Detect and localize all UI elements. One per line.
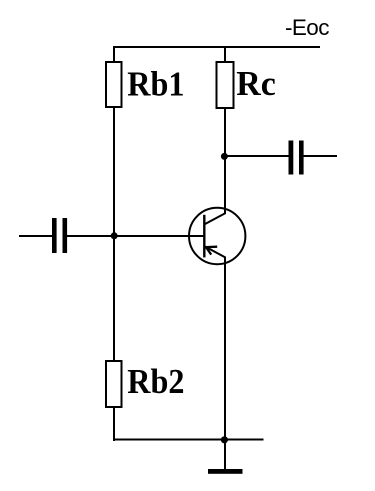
capacitor C2 (output coupling) — [289, 141, 304, 175]
node: base junction dot — [111, 232, 118, 239]
wire: Rb2 bottom to bottom rail — [113, 407, 115, 441]
wire: top rail to Rb1 top — [113, 46, 115, 62]
wire: collector node to output capacitor — [224, 155, 289, 157]
ground symbol — [208, 469, 243, 474]
wire: Rc bottom to collector (through output node) — [224, 108, 226, 214]
wire: top rail to Rc top — [224, 46, 226, 62]
resistor Rc — [217, 62, 276, 108]
wire: ground stem — [224, 440, 226, 470]
wire: Rb1 bottom to Rb2 top (through base node) — [113, 107, 115, 361]
resistor Rb2 — [106, 361, 184, 407]
svg-text:Rb2: Rb2 — [127, 363, 184, 402]
wire: top supply rail — [113, 46, 320, 48]
collector diagonal — [205, 213, 226, 224]
capacitor C1 (input coupling) — [52, 218, 67, 253]
emitter diagonal — [205, 246, 225, 257]
svg-text:Rb1: Rb1 — [127, 65, 184, 104]
wire: emitter down to bottom rail — [224, 257, 226, 442]
svg-text:-Eoc: -Eoc — [285, 15, 329, 40]
svg-text:Rc: Rc — [236, 65, 276, 104]
base bar — [203, 215, 205, 258]
wire: C1 to base node to transistor base — [67, 235, 204, 237]
transistor body circle — [189, 208, 245, 264]
node: emitter/ground junction dot — [221, 436, 228, 443]
wire: bottom rail — [113, 439, 264, 441]
resistor Rb1 — [106, 62, 184, 107]
emitter arrowhead (points toward base: PNP) — [206, 247, 217, 255]
transistor Q1 (PNP) — [189, 208, 245, 264]
wire: output lead right of C2 — [304, 155, 338, 157]
wire: input lead left of coupling capacitor — [19, 235, 52, 237]
node: collector junction dot — [221, 153, 228, 160]
